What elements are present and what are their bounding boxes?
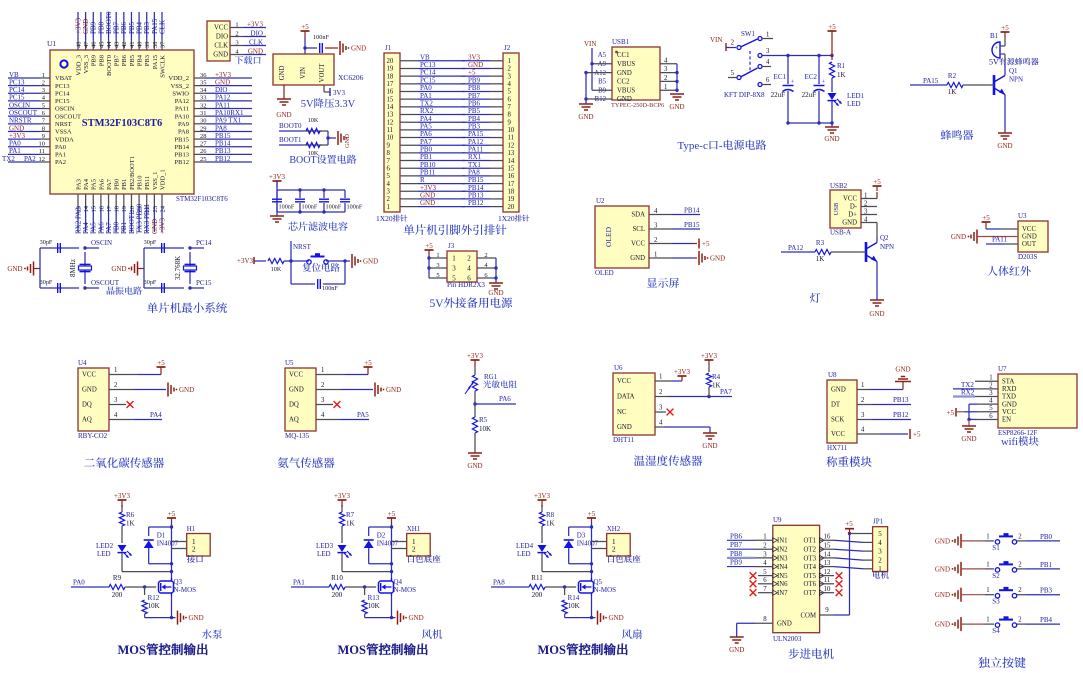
svg-text:6: 6 [508, 96, 512, 103]
svg-text:41: 41 [129, 42, 136, 49]
svg-text:GND: GND [630, 255, 645, 262]
svg-text:10K: 10K [271, 266, 282, 273]
U2 pin 4 wire [649, 207, 700, 215]
wire BOOT junction to ground [326, 131, 336, 145]
svg-text:LED4: LED4 [516, 542, 534, 550]
svg-text:PA15: PA15 [152, 55, 159, 69]
U9 OT2 wire to motor [820, 543, 873, 552]
svg-text:R9: R9 [113, 574, 122, 582]
J1 pin 15 wire PA1 [387, 92, 466, 104]
U9 OT1 wire to motor [820, 534, 873, 543]
svg-text:3: 3 [878, 548, 882, 556]
svg-text:45: 45 [98, 42, 105, 49]
diode D3 IN4007 [564, 527, 599, 564]
U1 top pin 48 VDD_3 [74, 12, 82, 76]
J3 left pin 5 wire [429, 272, 447, 279]
svg-text:LED: LED [97, 550, 111, 558]
resistor R3 1K lamp [781, 239, 866, 263]
U2 pin 3 wire [649, 221, 700, 229]
svg-text:13: 13 [824, 560, 831, 567]
svg-text:1: 1 [654, 252, 657, 259]
U9 OT4 wire to motor [820, 560, 873, 569]
U5 pin1 VCC wire to +5 [316, 359, 373, 375]
svg-text:白色底座: 白色底座 [407, 553, 442, 565]
label MOS管控制输出 [538, 640, 629, 658]
transistor Q3 N-MOS [159, 578, 197, 618]
svg-text:15: 15 [91, 206, 98, 213]
sensor U6 DHT11 [613, 364, 655, 444]
U6 pin2 DATA wire PA7 [655, 388, 732, 398]
svg-text:22uF: 22uF [771, 91, 786, 99]
svg-text:9: 9 [825, 607, 829, 614]
svg-text:2: 2 [114, 382, 118, 389]
svg-text:OLED: OLED [604, 226, 613, 247]
svg-text:JP1: JP1 [873, 518, 884, 526]
U1 left pin 11 PA1 [8, 147, 66, 158]
capacitor 30pF top 1 [40, 239, 61, 253]
svg-text:7: 7 [508, 104, 512, 111]
label Type-c口-电源电路 [677, 137, 766, 153]
U1 right pin 33 PA12 [175, 94, 252, 105]
svg-text:D2: D2 [377, 532, 386, 540]
capacitor 100nF filter C2 [295, 190, 318, 212]
connector download port 下载口 [207, 21, 230, 61]
svg-text:PA10: PA10 [175, 113, 189, 120]
svg-text:OUT: OUT [1022, 241, 1037, 248]
svg-text:VBUS: VBUS [617, 61, 635, 68]
svg-text:16: 16 [508, 173, 515, 180]
svg-text:2: 2 [878, 557, 882, 565]
power +5 typec [828, 23, 837, 60]
svg-text:PA9: PA9 [178, 121, 189, 128]
svg-text:15: 15 [387, 96, 394, 103]
svg-text:PA7: PA7 [720, 388, 732, 396]
module U7 ESP8266-12F [998, 365, 1077, 437]
svg-text:5: 5 [436, 272, 439, 279]
svg-text:S2: S2 [992, 572, 1000, 580]
switch S2 [985, 561, 1026, 580]
svg-text:PA2: PA2 [24, 155, 36, 163]
svg-text:OSCIN: OSCIN [91, 239, 112, 247]
ground GND J3 [488, 283, 503, 297]
svg-text:43: 43 [114, 42, 121, 49]
U1 right pin 35 VSS_2 [171, 78, 252, 89]
svg-text:2: 2 [508, 66, 512, 73]
svg-text:1: 1 [114, 367, 117, 374]
svg-text:SWIO: SWIO [172, 90, 189, 97]
capacitor 100nF filter C1 [272, 190, 295, 212]
transistor Q1 NPN [994, 62, 1023, 133]
connector XH1 白色底座 [392, 525, 442, 565]
svg-text:USB2: USB2 [830, 182, 848, 190]
svg-text:10: 10 [39, 141, 46, 148]
svg-text:U5: U5 [285, 359, 294, 367]
power +5 buzzer [1001, 24, 1010, 46]
svg-text:TXD: TXD [1002, 394, 1016, 401]
J3 right pin 6 wire [477, 272, 496, 279]
resistor R13 10K [362, 587, 380, 618]
power +3V3 风扇 [534, 492, 551, 507]
resistor R5 10K [472, 404, 491, 453]
U5 pin4 AQ wire PA5 [316, 411, 369, 420]
svg-text:15: 15 [824, 543, 831, 550]
svg-text:B12: B12 [595, 96, 607, 103]
svg-text:OT7: OT7 [804, 590, 817, 597]
svg-text:2: 2 [1018, 617, 1022, 624]
J2 pin 10 wire PB3 [462, 122, 515, 134]
USB2 pin 4 wire [861, 216, 877, 223]
svg-text:GND: GND [961, 435, 976, 443]
svg-text:XC6206: XC6206 [338, 73, 364, 82]
sensor U8 HX711 [827, 371, 857, 452]
ground GND OLED [672, 251, 725, 265]
svg-text:VDDA: VDDA [55, 136, 74, 143]
driver U9 ULN2003 [773, 516, 825, 643]
J2 pin 4 wire PB9 [462, 76, 512, 88]
svg-text:PA12: PA12 [788, 244, 804, 252]
svg-text:H1: H1 [187, 525, 196, 533]
svg-text:3: 3 [659, 405, 663, 412]
U9 IN5 no-connect X [750, 569, 773, 579]
U1 top pin 47 VSS_3 [82, 12, 90, 73]
svg-text:STA: STA [1002, 378, 1014, 385]
label 芯片滤波电容 [288, 218, 348, 233]
svg-text:GND: GND [467, 462, 482, 470]
svg-text:2: 2 [989, 382, 993, 389]
svg-text:18: 18 [508, 188, 515, 195]
buzzer B1 5V active [989, 32, 1039, 68]
resistor R1 1K [829, 62, 845, 92]
svg-text:17: 17 [508, 181, 515, 188]
net PA8 wire gate [491, 579, 529, 588]
svg-text:复位电路: 复位电路 [302, 260, 341, 274]
svg-text:XH2: XH2 [607, 525, 621, 533]
svg-text:PA2: PA2 [55, 159, 66, 166]
svg-text:2: 2 [659, 389, 663, 396]
svg-text:GND: GND [289, 387, 304, 394]
ground GND photoresistor [467, 453, 482, 470]
svg-text:R1: R1 [837, 62, 846, 70]
svg-text:28: 28 [200, 133, 207, 140]
svg-text:R4: R4 [712, 373, 721, 381]
svg-text:+3V3: +3V3 [247, 20, 264, 28]
U1 top pin 44 BOOT0 [105, 11, 113, 76]
USB1 left pin A5 wire [598, 52, 607, 59]
svg-text:GND: GND [1002, 401, 1017, 408]
svg-text:GND: GND [189, 614, 204, 622]
svg-text:GND: GND [777, 621, 792, 628]
wire VIN to VBUS pins [590, 62, 612, 90]
diode D1 IN4007 [144, 527, 179, 564]
svg-text:PB13: PB13 [175, 152, 189, 159]
svg-text:步进电机: 步进电机 [788, 646, 834, 662]
USB2 pin 1 wire [861, 192, 877, 199]
svg-text:白色底座: 白色底座 [607, 553, 642, 565]
svg-text:DATA: DATA [617, 394, 635, 401]
power +5 stepper [845, 520, 854, 535]
svg-text:5: 5 [878, 530, 882, 538]
svg-text:4: 4 [664, 57, 668, 64]
svg-text:2: 2 [42, 79, 45, 86]
svg-text:6: 6 [387, 165, 391, 172]
svg-text:8: 8 [387, 150, 391, 157]
resistor R6 1K [119, 505, 134, 543]
svg-text:1: 1 [766, 32, 769, 39]
svg-text:RBY-CO2: RBY-CO2 [78, 432, 108, 440]
svg-text:U2: U2 [596, 197, 605, 205]
svg-text:GND: GND [82, 387, 97, 394]
svg-text:GND: GND [710, 255, 725, 263]
svg-text:称重模块: 称重模块 [826, 454, 872, 470]
U1 bottom pin 23 VSS_1 [151, 172, 159, 234]
svg-text:27: 27 [200, 141, 207, 148]
U1 right pin 36 VDD_2 [168, 71, 252, 82]
U1 top pin 42 PB6 [120, 12, 128, 66]
svg-text:+5: +5 [845, 520, 853, 528]
svg-text:+3V3: +3V3 [269, 173, 286, 181]
svg-text:10K: 10K [568, 602, 580, 610]
power +5 wifi [947, 408, 964, 417]
label 独立按键 [978, 654, 1026, 671]
svg-text:蜂鸣器: 蜂鸣器 [941, 127, 974, 143]
resistor R11 200 [529, 574, 576, 599]
U8 pin2 DT wire PB13 [857, 396, 911, 405]
svg-text:100nF: 100nF [322, 285, 338, 292]
svg-text:A5: A5 [598, 52, 607, 59]
svg-text:XH1: XH1 [407, 525, 421, 533]
J2 pin 1 wire 3V3 [462, 53, 511, 65]
svg-text:DQ: DQ [82, 402, 92, 409]
wire button S4 to PB4 [1026, 616, 1060, 624]
J3 right pin 4 wire [477, 262, 496, 269]
svg-text:LED: LED [317, 550, 331, 558]
wire filter cap rails [277, 188, 345, 213]
svg-text:PA4: PA4 [83, 178, 90, 190]
U1 bottom pin 16 PA6 [97, 178, 105, 234]
regulator U XC6206 [273, 54, 364, 85]
svg-text:单片机最小系统: 单片机最小系统 [147, 300, 228, 316]
svg-text:3: 3 [235, 39, 238, 46]
svg-text:Q3: Q3 [174, 578, 183, 586]
svg-text:R3: R3 [816, 239, 825, 247]
svg-text:1: 1 [235, 21, 238, 28]
connector USB1 TYPEC-250D-BCP6 [611, 38, 664, 109]
svg-text:17: 17 [387, 81, 394, 88]
svg-text:GND: GND [951, 233, 966, 241]
svg-text:HX711: HX711 [827, 444, 848, 452]
svg-text:NRST: NRST [293, 243, 312, 251]
J2 pin 3 wire +5 [462, 69, 512, 81]
ground GND BOOT [338, 131, 351, 148]
U9 GND pin8 wire [737, 616, 773, 637]
svg-text:氨气传感器: 氨气传感器 [277, 455, 335, 471]
ground GND typec [824, 127, 839, 143]
svg-text:PA8: PA8 [178, 129, 189, 136]
svg-text:R10: R10 [331, 574, 343, 582]
svg-text:PB7: PB7 [730, 541, 743, 549]
svg-text:SWCLK: SWCLK [159, 55, 166, 78]
svg-text:VSSA: VSSA [55, 129, 72, 136]
svg-text:PB8: PB8 [98, 55, 105, 66]
svg-text:GND: GND [842, 220, 857, 227]
svg-text:PB14: PB14 [175, 144, 190, 151]
svg-text:U7: U7 [998, 365, 1007, 373]
svg-text:灯: 灯 [810, 290, 821, 306]
J2 pin 9 wire PB4 [462, 115, 512, 127]
U9 IN4 wire PB9 [727, 559, 773, 567]
svg-text:2: 2 [467, 254, 471, 262]
ground GND IR [951, 230, 1018, 244]
svg-text:PA8: PA8 [493, 579, 505, 587]
svg-text:BOOT设置电路: BOOT设置电路 [289, 151, 356, 166]
svg-text:S1: S1 [992, 544, 1000, 552]
svg-text:PC13: PC13 [55, 83, 69, 90]
svg-text:S3: S3 [992, 598, 1000, 606]
ground GND 水泵 [178, 611, 204, 625]
label 风机 [422, 627, 443, 642]
svg-text:USB1: USB1 [612, 38, 630, 46]
svg-text:3: 3 [654, 223, 658, 230]
U1 right pin 25 PB12 [175, 155, 252, 166]
svg-text:5: 5 [763, 569, 767, 576]
J2 pin 5 wire PB8 [462, 84, 512, 96]
svg-text:+5: +5 [388, 510, 396, 518]
svg-text:TX2: TX2 [2, 155, 15, 163]
svg-text:23: 23 [152, 206, 159, 213]
svg-text:OSCOUT: OSCOUT [55, 113, 81, 120]
svg-text:GND: GND [935, 591, 950, 599]
svg-text:6: 6 [763, 577, 767, 584]
svg-text:30pF: 30pF [144, 279, 157, 286]
svg-text:8: 8 [42, 125, 45, 132]
svg-text:GND: GND [935, 537, 950, 545]
svg-text:Q1: Q1 [1009, 67, 1018, 75]
U1 bottom pin 22 PB11 [143, 176, 151, 234]
power +5 lamp [873, 178, 882, 199]
net VIN label [584, 40, 596, 90]
USB2 pin 2 wire [861, 200, 877, 207]
svg-text:2: 2 [864, 200, 868, 207]
svg-text:VSS_1: VSS_1 [152, 172, 159, 190]
U1 top pin 40 PB4 [135, 12, 143, 66]
svg-text:DIO: DIO [251, 29, 263, 37]
U1 left pin 1 VBAT [8, 71, 72, 82]
svg-text:+5: +5 [873, 178, 881, 186]
ground GND button S2 [935, 562, 985, 576]
U4 pin2 GND wire [109, 382, 194, 397]
net label PC15 [196, 279, 212, 287]
U9 IN6 no-connect X [750, 577, 773, 587]
svg-text:GND: GND [617, 424, 632, 431]
wire crystal 1 frame [40, 248, 99, 288]
net label OSCIN [91, 239, 112, 247]
svg-text:R14: R14 [568, 594, 580, 602]
svg-text:48: 48 [75, 42, 82, 49]
U1 bottom pin 14 PA4 [82, 178, 90, 234]
net PA0 wire gate [71, 579, 109, 588]
svg-text:OLED: OLED [595, 269, 614, 277]
svg-text:IN2: IN2 [777, 547, 788, 554]
J2 pin 2 wire GND [462, 61, 512, 73]
svg-text:Q4: Q4 [394, 578, 403, 586]
U1 bottom pin 17 PA7 [105, 178, 113, 234]
U1 bottom pin 18 PB0 [113, 179, 121, 234]
svg-text:8: 8 [763, 616, 767, 623]
label 氨气传感器 [277, 455, 335, 471]
J1 pin 6 wire PB10 [387, 161, 466, 173]
wire crystal 2 frame [144, 248, 204, 288]
ground GND reset [345, 254, 378, 268]
svg-text:R5: R5 [479, 416, 488, 424]
svg-text:VSS_2: VSS_2 [171, 83, 189, 90]
svg-text:Type-c口-电源电路: Type-c口-电源电路 [677, 137, 766, 153]
svg-text:BOOT0: BOOT0 [106, 55, 113, 76]
svg-text:U1: U1 [47, 39, 56, 48]
svg-text:IN4007: IN4007 [377, 540, 399, 548]
J2 pin 11 wire PA15 [462, 130, 514, 142]
connector JP1 motor 电机 [872, 518, 890, 582]
U7 pin6 EN wire [967, 413, 998, 421]
svg-text:B5: B5 [598, 79, 607, 86]
wire button S1 to PB0 [1026, 533, 1060, 541]
U1 top pin 38 PA15 [151, 12, 159, 69]
svg-text:AQ: AQ [289, 417, 299, 424]
svg-text:PB12: PB12 [468, 199, 484, 207]
svg-text:CC2: CC2 [617, 79, 630, 86]
J1 pin 3 wire +3V3 [387, 184, 466, 196]
svg-text:NRST: NRST [55, 121, 72, 128]
LED LED3 [316, 542, 392, 572]
svg-text:PB3: PB3 [144, 55, 151, 66]
svg-text:IN1: IN1 [777, 538, 788, 545]
ground GND button S1 [935, 534, 985, 548]
svg-text:PA0: PA0 [55, 144, 66, 151]
svg-text:3: 3 [864, 208, 868, 215]
svg-text:NPN: NPN [1009, 76, 1023, 84]
svg-text:1: 1 [508, 58, 511, 65]
U2 pin 2 wire [649, 237, 672, 244]
svg-text:4: 4 [508, 81, 512, 88]
U4 pin4 AQ wire PA4 [109, 411, 162, 420]
label 5V降压3.3V [301, 96, 356, 111]
svg-text:PB11: PB11 [144, 176, 151, 190]
label MOS管控制输出 [118, 640, 209, 658]
U1 left pin 5 OSCIN [8, 101, 75, 112]
diode D2 IN4007 [364, 527, 399, 564]
U1 left pin 12 PA2 [2, 155, 66, 166]
capacitor 100nF reset [291, 261, 345, 292]
svg-text:PB9: PB9 [91, 55, 98, 66]
U1 left pin 7 NRST [8, 117, 72, 128]
svg-text:GND: GND [831, 387, 846, 394]
svg-text:1: 1 [436, 252, 439, 259]
resistor R 10K reset [268, 258, 291, 273]
power +5 水泵 [167, 510, 176, 522]
J3 right pin 2 wire [477, 252, 496, 259]
ground GND USB1 right [669, 94, 684, 111]
svg-text:VOUT: VOUT [319, 63, 326, 83]
J1 pin 9 wire PA7 [387, 138, 466, 150]
svg-text:IN3: IN3 [777, 555, 788, 562]
ground GND of regulator [276, 85, 291, 119]
svg-text:PB10: PB10 [136, 176, 143, 190]
U1 top pin 37 SWCLK [158, 12, 166, 78]
capacitor EC1 22uF [771, 56, 795, 124]
svg-text:1K: 1K [712, 382, 721, 390]
resistor R9 200 [109, 574, 156, 599]
svg-text:1: 1 [321, 367, 324, 374]
U7 pin3 TXD wire RX2 [953, 389, 998, 397]
